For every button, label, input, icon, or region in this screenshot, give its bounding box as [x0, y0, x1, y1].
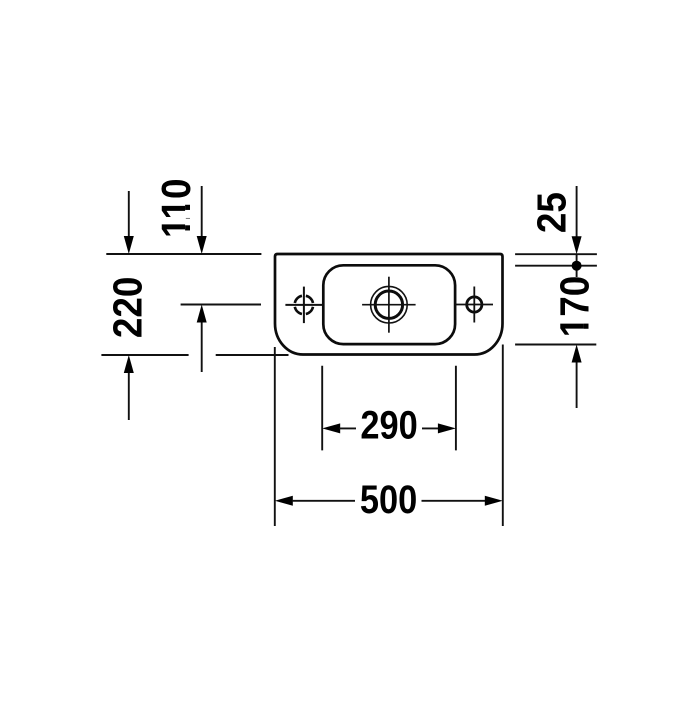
extension line 500 left	[274, 347, 276, 526]
right hole crosshair vertical	[473, 287, 475, 323]
dim 170 arrow line	[576, 362, 578, 408]
dim 500 left arrowhead	[275, 496, 293, 506]
reference line right bottom	[515, 344, 596, 346]
right hole circle	[467, 297, 482, 312]
dim 110 upper arrowhead	[197, 236, 207, 254]
label 110	[154, 178, 199, 238]
dim 110 upper arrow line	[201, 186, 203, 237]
inner bowl	[323, 265, 455, 344]
label 170	[553, 276, 598, 338]
extension line 500 right	[502, 345, 504, 527]
dim 290 line left tail	[339, 427, 356, 429]
dim dot terminator	[572, 261, 582, 271]
left hole dashed circle	[295, 296, 313, 314]
dim 290 left arrowhead	[322, 423, 340, 433]
extension line 290 right	[455, 366, 457, 451]
dim 290 line right tail	[422, 427, 439, 429]
dim 25 arrow line	[576, 186, 578, 237]
right hole crosshair horizontal	[456, 304, 494, 306]
reference line hole axis left	[181, 304, 261, 306]
reference line top-left (wall edge level)	[106, 253, 261, 255]
dim 25/170 connector through dot	[576, 254, 578, 277]
svg-text:110: 110	[154, 178, 199, 238]
dim 220 lower arrowhead	[124, 355, 134, 373]
extension line 290 left	[321, 366, 323, 451]
dim 220 lower arrow line	[128, 373, 130, 421]
reference line top-right upper	[515, 253, 597, 255]
left hole crosshair horizontal	[285, 304, 322, 306]
svg-text:290: 290	[360, 402, 417, 447]
reference line bottom-left segment a	[101, 354, 188, 356]
svg-text:220: 220	[106, 277, 151, 339]
left hole crosshair vertical	[303, 287, 305, 324]
dim 25 arrowhead	[572, 236, 582, 254]
dim 110 lower arrow line	[201, 323, 203, 373]
dim 500 line right tail	[422, 500, 486, 502]
basin outer outline	[275, 254, 503, 355]
tap hole crosshair vertical	[388, 277, 390, 333]
svg-text:25: 25	[530, 192, 575, 233]
svg-text:500: 500	[360, 477, 417, 522]
reference line top-right lower	[515, 265, 597, 267]
svg-text:170: 170	[553, 276, 598, 338]
dim 110 lower arrowhead	[197, 305, 207, 323]
dim 220 upper arrowhead	[124, 236, 134, 254]
reference line bottom-left segment b	[216, 354, 289, 356]
tap hole outer circle	[371, 286, 408, 323]
tap hole crosshair horizontal	[362, 304, 416, 306]
dim 220 upper arrow line	[128, 191, 130, 237]
tap hole inner circle	[375, 291, 402, 318]
dim 500 line left tail	[292, 500, 355, 502]
dim 290 right arrowhead	[438, 423, 456, 433]
dim 500 right arrowhead	[485, 496, 503, 506]
dim 170 arrowhead	[572, 345, 582, 363]
